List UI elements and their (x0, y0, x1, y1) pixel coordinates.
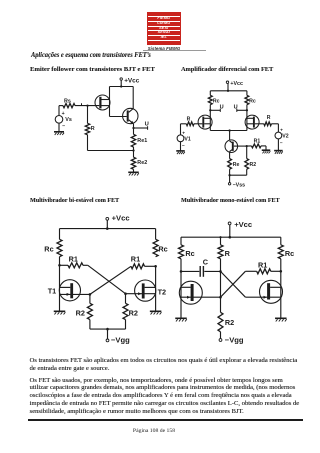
node Vcc rail junction c2 (227, 90, 229, 92)
svg-text:Re: Re (233, 162, 240, 168)
ground R1 c2 (262, 150, 271, 153)
svg-text:R1: R1 (258, 261, 267, 270)
transistor T2 (126, 280, 167, 301)
logo rule 2 (148, 20, 180, 23)
wire base link c1 (110, 116, 127, 118)
footer rule (28, 419, 303, 421)
wire left Rc leg c4 (180, 237, 182, 245)
footer page number (0, 428, 308, 434)
logo rule 3 (148, 25, 180, 28)
node U tap left c2 (209, 104, 223, 112)
resistor Re1 (131, 134, 147, 147)
node C junction left c4 (180, 270, 183, 273)
node Re junction c1 (132, 149, 134, 151)
logo caption Sistema FIEMG (140, 46, 188, 51)
svg-text:R2: R2 (129, 309, 138, 318)
svg-text:T2: T2 (158, 288, 167, 297)
svg-text:−Vss: −Vss (233, 182, 246, 188)
resistor R1 right c3 (131, 254, 156, 269)
wire mid R leg c4 (219, 236, 221, 245)
resistor Rc right c4 (278, 245, 294, 259)
wire R2 leg c2 (246, 146, 248, 159)
wire left Rc leg c3 (59, 229, 61, 240)
wire bootstrap c1 (88, 150, 134, 152)
svg-text:+Vcc: +Vcc (112, 214, 130, 223)
header rule (143, 49, 206, 52)
power -Vgg terminal c4 (219, 335, 244, 344)
power +Vcc terminal circuit 4 (228, 220, 252, 229)
svg-text:−: − (280, 141, 283, 146)
transistor Q2 BJT c1 (123, 87, 138, 129)
resistor Rc right c3 (153, 239, 168, 256)
ground T1 (54, 311, 66, 314)
node right drain junction c3 (154, 265, 157, 268)
wire output U c1 (134, 122, 149, 130)
logo word CIEMG (147, 22, 181, 26)
node Vss junction c2 (228, 174, 230, 176)
logo word FIEMG (147, 17, 181, 21)
svg-text:+Vcc: +Vcc (234, 220, 252, 229)
svg-text:U: U (220, 104, 224, 110)
node T1 gate junction (89, 293, 92, 296)
transistor right FET c4 (245, 280, 282, 303)
svg-text:U: U (145, 122, 149, 128)
node gate junction mid c4 (219, 296, 222, 299)
svg-text:−Vgg: −Vgg (225, 335, 244, 344)
svg-text:T1: T1 (48, 287, 57, 296)
resistor R right c2 (264, 115, 272, 126)
resistor R2 right c3 (123, 294, 138, 329)
svg-text:R1: R1 (69, 255, 78, 264)
wire drain riser c1 (109, 87, 111, 117)
svg-text:R: R (267, 115, 271, 121)
transistor T1 (48, 280, 90, 301)
ground V2 (274, 151, 283, 154)
wire right tangent c4 (280, 271, 282, 318)
wire top rail c1 (110, 86, 134, 88)
power -Vss terminal c2 (228, 175, 245, 188)
resistor R c1 (85, 123, 95, 135)
wire bottom join c2 (230, 169, 247, 175)
wire Vcc drop c3 (106, 220, 108, 228)
svg-text:R1: R1 (254, 139, 261, 145)
resistor R1 c4 (245, 261, 280, 274)
wire left tangent c4 (180, 259, 182, 319)
logo word SESI (147, 27, 181, 31)
source Vs (55, 106, 72, 132)
paragraph 2 line 3 (30, 392, 292, 399)
resistor Re2 (131, 157, 147, 169)
svg-text:V1: V1 (184, 136, 190, 142)
logo word IEL (147, 36, 181, 40)
wire right Rc bottom c4 (280, 259, 282, 272)
wire R leg c1 (87, 106, 89, 124)
wire top rail c3 (60, 228, 156, 230)
resistor R2 c4 (218, 297, 234, 338)
svg-text:Rc: Rc (158, 245, 167, 254)
transistor Q1 FET c1 (95, 95, 110, 110)
wire cross diagonal B c3 (90, 266, 131, 294)
svg-text:R1: R1 (131, 254, 140, 263)
svg-text:+: + (62, 111, 65, 117)
heading differential amplifier (181, 66, 273, 73)
wire Vcc drop c4 (229, 225, 231, 237)
node left drain junction c3 (58, 264, 61, 267)
svg-text:V2: V2 (282, 134, 288, 140)
paragraph 2 line 4 (30, 400, 300, 407)
wire emitter drop c2 (229, 152, 231, 159)
source V1 (177, 124, 191, 151)
wire right Rc leg c2 (246, 91, 248, 96)
svg-text:Rc: Rc (44, 245, 53, 254)
transistor left FET c2 (198, 115, 212, 129)
node R1 junction c4 (280, 270, 283, 273)
svg-text:R: R (91, 126, 95, 132)
wire input left c2 (181, 123, 203, 125)
wire R bottom c1 (87, 135, 89, 151)
svg-text:Vs: Vs (65, 117, 72, 123)
resistor R c4 (218, 245, 231, 259)
paragraph 2 line 2 (30, 384, 296, 391)
logo rule 5 (148, 34, 180, 37)
node base junction c2 (246, 145, 248, 147)
wire Vcc drop c2 (227, 83, 229, 90)
wire top rail c2 (210, 90, 247, 92)
svg-text:Re2: Re2 (137, 160, 147, 166)
ground c1 (128, 172, 139, 175)
paragraph 1 line 1 (30, 357, 298, 364)
wire cross diagonal A c4 (221, 271, 246, 297)
wire mid riser c4 (220, 259, 222, 297)
ground Vs (54, 132, 64, 135)
wire right tangent c3 (155, 266, 157, 311)
svg-text:C: C (203, 257, 209, 266)
svg-text:R2: R2 (225, 318, 234, 327)
wire bottom rail c2 (210, 130, 247, 132)
page title (31, 50, 151, 59)
node Vcc rail junction c3 (106, 227, 109, 230)
paragraph 1 line 2 (30, 365, 110, 372)
resistor R1 left c3 (60, 255, 88, 268)
power +Vcc terminal circuit 3 (106, 214, 130, 223)
svg-text:U: U (234, 104, 238, 110)
ground left c4 (175, 318, 187, 321)
transistor right FET c2 (245, 115, 259, 129)
power +Vcc terminal circuit 1 (120, 78, 140, 85)
resistor R1 c2 (247, 139, 266, 151)
ground right c4 (275, 318, 287, 321)
ground V1 (176, 151, 185, 154)
svg-text:−Vgg: −Vgg (111, 335, 130, 344)
svg-text:+Vcc: +Vcc (124, 78, 140, 85)
wire Re2 bottom (133, 169, 135, 172)
node T2 gate junction (124, 292, 127, 295)
resistor Rc left c2 (208, 95, 219, 104)
wire right riser c2 (246, 105, 248, 131)
svg-text:Re1: Re1 (137, 138, 147, 144)
svg-text:−: − (182, 144, 185, 149)
svg-text:R: R (187, 117, 191, 123)
wire top rail c4 (181, 236, 281, 238)
wire right Rc leg c4 (280, 237, 282, 245)
resistor Rc left c4 (179, 245, 195, 259)
svg-text:R: R (225, 249, 231, 258)
resistor Rc right c2 (245, 95, 256, 104)
transistor BJT c2 (225, 140, 247, 153)
node output junction c1 (132, 127, 134, 129)
svg-text:Rs: Rs (64, 98, 71, 104)
resistor R2 left c3 (76, 294, 93, 329)
svg-text:R2: R2 (250, 162, 257, 168)
heading emitter follower (30, 66, 155, 73)
heading bistable (30, 197, 119, 204)
power +Vcc terminal circuit 2 (226, 81, 243, 87)
wire Re middle (133, 147, 135, 157)
logo rule 1 (148, 15, 180, 18)
wire input right c2 (255, 123, 279, 125)
node Vcc rail junction c1 (120, 85, 122, 87)
resistor Rc left c3 (44, 239, 62, 256)
wire tail drop c2 (229, 131, 231, 141)
logo word SENAI (147, 31, 181, 35)
wire cross diagonal B c4 (221, 271, 246, 297)
resistor R left c2 (186, 117, 194, 126)
node tail junction c2 (228, 129, 230, 131)
logo rule 6 (148, 39, 180, 42)
node gate tick c1 (81, 103, 83, 105)
wire bottom rail c3 (90, 328, 126, 330)
node R top junction (86, 104, 88, 106)
logo FIEMG red box (147, 12, 181, 46)
wire cross diagonal A c3 (88, 265, 126, 293)
paragraph 2 line 5 (30, 408, 244, 415)
source V2 (275, 124, 289, 151)
resistor R2 c2 (245, 159, 256, 170)
capacitor C (181, 257, 221, 277)
paragraph 2 line 1 (30, 377, 283, 384)
resistor Re c2 (228, 159, 240, 170)
wire left Rc leg c2 (209, 91, 211, 96)
wire left riser c2 (209, 105, 211, 131)
resistor Rs (63, 98, 75, 107)
wire gate input c1 (59, 105, 99, 107)
power -Vgg terminal c3 (106, 329, 130, 344)
node Vcc rail junction c4 (229, 236, 232, 239)
wire Vcc drop c1 (120, 80, 122, 86)
node Vgg junction c3 (106, 328, 109, 331)
wire right Rc leg c3 (155, 229, 157, 240)
svg-text:+Vcc: +Vcc (230, 81, 243, 87)
svg-text:−: − (62, 124, 65, 130)
ground T2 (150, 311, 162, 314)
wire left tangent c3 (59, 257, 61, 312)
wire Re1 top (133, 128, 135, 134)
node C junction mid c4 (219, 270, 222, 273)
transistor left FET c4 (179, 281, 220, 304)
svg-text:Rc: Rc (285, 249, 294, 258)
svg-text:Rc: Rc (185, 249, 194, 258)
node U tap right c2 (234, 104, 248, 112)
logo rule 4 (148, 29, 180, 32)
svg-text:R2: R2 (76, 309, 85, 318)
svg-text:Rc: Rc (249, 99, 256, 105)
heading monostable (181, 197, 280, 204)
